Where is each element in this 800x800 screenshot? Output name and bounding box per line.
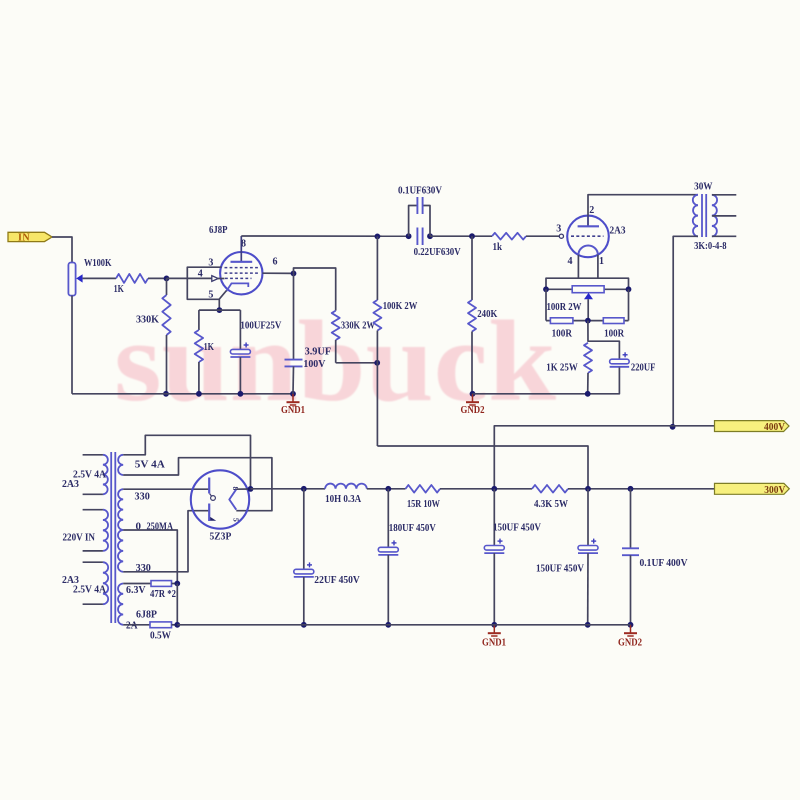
svg-text:4: 4 — [198, 269, 203, 280]
wire secondary tap 8 — [712, 194, 736, 196]
resistor 240K (grid leak 2A3) — [468, 236, 498, 394]
svg-text:3: 3 — [556, 223, 561, 234]
resistor 330K (grid leak) — [136, 278, 171, 393]
junction hum pot left — [543, 286, 549, 292]
net tag IN — [8, 232, 52, 243]
junction coupling cap left — [406, 233, 412, 239]
junction 180UF at 0V bus — [385, 622, 391, 628]
svg-text:3K:0-4-8: 3K:0-4-8 — [694, 240, 727, 252]
wire pot bottom to ground bus — [71, 296, 73, 394]
capacitor 180UF 450V — [378, 489, 436, 625]
junction grid node A — [164, 276, 170, 282]
wire pin 5 to cathode node — [219, 291, 226, 311]
wire secondary tap 0 — [712, 235, 736, 237]
winding secondary HV 330-0-330 — [118, 489, 173, 574]
capacitor 3.9UF 100V — [285, 273, 332, 393]
choke 10H 0.3A — [325, 484, 367, 505]
svg-text:330: 330 — [135, 491, 151, 503]
svg-text:300V: 300V — [764, 485, 786, 496]
svg-text:2A3: 2A3 — [62, 478, 79, 490]
svg-text:6J8P: 6J8P — [136, 609, 157, 621]
wire hum network top rail — [546, 278, 629, 289]
wire 47R to centre-tap node — [172, 583, 178, 585]
junction 330K at ground bus — [163, 391, 169, 397]
svg-text:1K: 1K — [114, 283, 125, 295]
capacitor 22UF 450V — [294, 489, 360, 625]
capacitor 0.1UF630V (parallel coupling) — [398, 185, 442, 215]
wire 2A3 plate to output transformer — [588, 195, 698, 216]
svg-text:330K 2W: 330K 2W — [341, 320, 375, 332]
junction GND2 node (driver) — [470, 391, 476, 397]
resistor 100R (left) — [550, 318, 573, 340]
ground bus GND1 segment (left) — [72, 393, 293, 395]
resistor 1K 25W (cathode bias) — [546, 343, 592, 394]
svg-text:0.1UF 400V: 0.1UF 400V — [640, 557, 688, 569]
svg-text:100R 2W: 100R 2W — [547, 301, 582, 313]
wire caps to 2A3 grid node — [430, 235, 492, 237]
svg-text:180UF 450V: 180UF 450V — [389, 522, 436, 534]
svg-text:22UF 450V: 22UF 450V — [314, 574, 360, 586]
svg-text:0.1UF630V: 0.1UF630V — [398, 185, 442, 197]
resistor 47R *2 — [150, 581, 176, 600]
wire cathode node crossbar — [199, 309, 241, 311]
wire 330 top tap to plate 1 — [123, 488, 209, 490]
ground GND1 (power supply) — [493, 625, 495, 633]
wire secondary tap 4 — [712, 215, 736, 217]
junction plate node / B+ rail tee — [375, 234, 381, 240]
svg-text:2A3: 2A3 — [610, 224, 626, 236]
svg-text:2A: 2A — [126, 620, 138, 631]
svg-text:1: 1 — [599, 256, 604, 267]
svg-text:5V 4A: 5V 4A — [135, 459, 165, 471]
junction cathode node 6J8P — [217, 307, 223, 313]
svg-text:100K 2W: 100K 2W — [383, 300, 418, 312]
wire 330 bottom tap to plate 2 — [123, 511, 209, 572]
resistor 15R 10W — [406, 485, 441, 510]
svg-text:3.9UF: 3.9UF — [305, 346, 332, 358]
wire hum network side rails — [545, 289, 547, 320]
wire pin 8 plate to coupling caps — [241, 235, 408, 237]
wire filament to B+ node — [236, 488, 250, 490]
ground GND2 (driver stage) — [472, 394, 474, 402]
svg-text:W100K: W100K — [84, 257, 112, 269]
wire 0.5W to bus — [172, 624, 178, 626]
svg-text:5: 5 — [232, 518, 241, 522]
junction 240K node — [469, 233, 475, 239]
svg-text:47R *2: 47R *2 — [150, 588, 176, 600]
junction 330K2W to 100K rail — [374, 360, 380, 366]
svg-text:100R: 100R — [552, 328, 573, 340]
svg-text:0.22UF630V: 0.22UF630V — [414, 246, 461, 258]
svg-text:150UF 450V: 150UF 450V — [536, 563, 584, 575]
junction 300V node — [585, 486, 591, 492]
junction 100UF at bus — [238, 391, 244, 397]
wire pin 6 to node B — [262, 272, 293, 274]
svg-text:5Z3P: 5Z3P — [210, 531, 232, 543]
resistor 100R (right) — [603, 318, 625, 340]
capacitor 150UF 450V (second) — [536, 489, 598, 625]
capacitor 150UF 450V (first) — [484, 489, 541, 625]
svg-text:100UF25V: 100UF25V — [240, 320, 281, 332]
svg-text:6J8P: 6J8P — [209, 224, 228, 236]
junction 180UF node — [385, 486, 391, 492]
wire pot wiper to resistor 1K — [83, 277, 116, 279]
power tube 2A3 V2 — [559, 216, 626, 258]
resistor 1k (grid stopper 2A3) — [492, 233, 526, 253]
wire IN tag to potentiometer top — [52, 237, 72, 263]
resistor 1K (cathode) — [195, 310, 215, 394]
svg-text:240K: 240K — [477, 308, 497, 320]
svg-text:2.5V 4A: 2.5V 4A — [73, 584, 106, 596]
svg-text:0.5W: 0.5W — [150, 630, 171, 642]
svg-text:GND1: GND1 — [482, 638, 506, 649]
svg-text:6.3V: 6.3V — [126, 584, 146, 596]
svg-text:2: 2 — [589, 205, 594, 216]
junction centre tap / 47R — [174, 581, 180, 587]
winding primary 220V IN — [63, 510, 109, 551]
wire B+ rail — [251, 488, 326, 490]
svg-text:30W: 30W — [694, 180, 712, 192]
wire PSU 0V bus — [177, 624, 630, 626]
grid input arrow pin 4 — [212, 276, 218, 282]
svg-text:220UF: 220UF — [631, 362, 656, 374]
net tag 300V — [715, 483, 790, 495]
capacitor 0.1UF 400V — [622, 489, 688, 625]
wire hum network bottom rail — [546, 320, 629, 322]
wire 0 centre tap down — [123, 530, 177, 584]
svg-text:GND2: GND2 — [461, 405, 485, 416]
wire node A to 6J8P grid arrow — [167, 277, 213, 279]
svg-text:IN: IN — [18, 233, 30, 244]
junction 22UF node — [301, 486, 307, 492]
winding primary 2.5V 4A (top) — [62, 455, 108, 495]
svg-text:8: 8 — [241, 238, 246, 249]
winding primary 2.5V 4A (bottom) — [62, 562, 108, 604]
junction 150UF1 at 0V bus / GND1 — [491, 622, 497, 628]
net tag 400V — [715, 421, 790, 433]
winding secondary 6.3V heater — [118, 584, 157, 632]
ground GND2 (power supply) — [630, 625, 632, 633]
junction 1K cathode at bus — [196, 391, 202, 397]
potentiometer W100K — [68, 257, 111, 296]
wire cathode node down / branch — [588, 321, 620, 360]
junction 0.1UF at 0V bus / GND2 — [628, 622, 634, 628]
wire 1K to grid node — [148, 277, 167, 279]
svg-text:GND1: GND1 — [281, 405, 305, 416]
resistor 4.3K 5W — [532, 485, 568, 510]
wire pin 3 tie — [187, 267, 221, 299]
svg-text:100R: 100R — [604, 328, 625, 340]
svg-text:10H 0.3A: 10H 0.3A — [325, 493, 361, 505]
wire 5V bottom lead to filament — [123, 458, 272, 511]
junction rectifier B+ node — [248, 486, 254, 492]
junction coupling cap right — [427, 233, 433, 239]
svg-text:4.3K 5W: 4.3K 5W — [534, 498, 568, 510]
output transformer T2 30W 3K:0-4-8 — [693, 180, 727, 252]
wire 400V rail — [494, 426, 714, 489]
svg-text:400V: 400V — [764, 422, 786, 433]
junction 150UF2 at 0V bus — [585, 622, 591, 628]
wire centre-tap node down — [176, 584, 178, 625]
svg-text:1K 25W: 1K 25W — [546, 362, 578, 374]
svg-text:4: 4 — [568, 256, 573, 267]
wire 2A3 filament legs — [577, 255, 579, 278]
svg-text:15R 10W: 15R 10W — [407, 498, 440, 510]
junction 0V bus start — [174, 622, 180, 628]
svg-text:GND2: GND2 — [618, 638, 642, 649]
junction cathode node 2A3 — [585, 318, 591, 324]
power transformer T1 core — [110, 452, 112, 623]
ground GND1 (driver stage) — [292, 394, 294, 402]
junction bus end GND1 node — [290, 391, 296, 397]
svg-text:330K: 330K — [136, 314, 159, 326]
wire 1k to 2A3 grid — [526, 235, 559, 237]
capacitor 100UF25V (cathode bypass) — [230, 310, 281, 394]
wire OPT primary bottom to 400V node — [673, 236, 698, 426]
junction hum pot right — [626, 286, 632, 292]
wire 6.3V tap to 47R — [123, 583, 151, 585]
wire 15R to 400V node — [440, 488, 532, 490]
op tube 6J8P U1 — [209, 224, 263, 294]
wire parallel cap branch — [409, 206, 417, 237]
wire 4.3K to 300V tag — [568, 488, 715, 490]
wire 5V top lead to rectifier output — [123, 435, 250, 489]
capacitor 0.22UF630V (coupling) — [414, 228, 461, 259]
junction 22UF at 0V bus — [301, 622, 307, 628]
svg-text:100V: 100V — [303, 358, 325, 370]
junction 0.1UF node — [628, 486, 634, 492]
winding secondary 5V 4A — [118, 455, 165, 475]
svg-text:6: 6 — [273, 257, 278, 268]
wire 100K rail to 300V node — [377, 446, 588, 489]
potentiometer 100R 2W (hum balance) — [546, 286, 629, 321]
capacitor 220UF (cathode bypass 2A3) — [610, 352, 656, 373]
rectifier tube 5Z3P V3 — [191, 470, 249, 542]
junction 400V feed node — [491, 486, 497, 492]
resistor 330K 2W — [294, 268, 378, 363]
junction 400V at OPT feed — [670, 424, 676, 430]
ground bus GND2 segment — [473, 367, 620, 394]
svg-text:1K: 1K — [204, 341, 215, 353]
resistor 1K (grid stopper) — [114, 274, 148, 295]
resistor 0.5W — [150, 622, 172, 642]
svg-text:150UF 450V: 150UF 450V — [493, 522, 541, 534]
svg-text:220V IN: 220V IN — [63, 532, 96, 544]
wire choke to 180UF node — [367, 488, 406, 490]
wire 2A tap to 0.5W — [123, 624, 150, 626]
resistor 100K 2W (plate load) — [373, 236, 417, 446]
svg-text:1k: 1k — [493, 241, 503, 253]
junction 1K25W at bus — [585, 391, 591, 397]
junction node B (pin 6) — [291, 271, 297, 277]
